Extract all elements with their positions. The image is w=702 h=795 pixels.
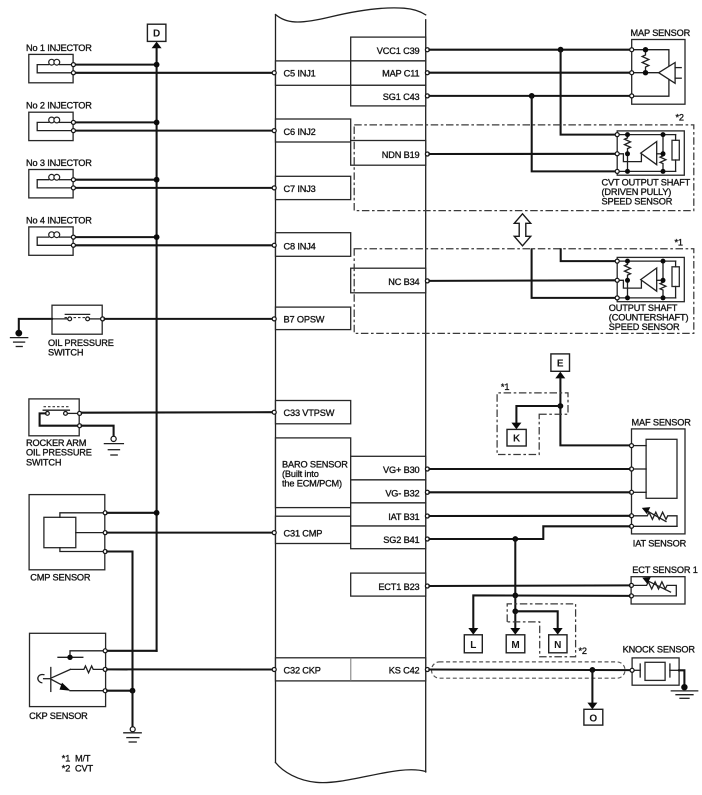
svg-text:KNOCK SENSOR: KNOCK SENSOR — [623, 644, 696, 654]
svg-text:ECT1 B23: ECT1 B23 — [378, 582, 419, 592]
terminal VCC1 C39 — [425, 48, 429, 52]
connector E box — [551, 354, 570, 371]
terminal KS C42 — [425, 668, 429, 672]
ECM/PCM strip top torn-edge wave — [276, 8, 426, 22]
arrow into L — [468, 628, 478, 635]
wire: injector4 to C8 INJ4 — [75, 244, 274, 246]
junction: bus / injector1 — [154, 62, 160, 68]
wire: SG2 vertical continues to M/N node — [514, 595, 516, 611]
wire: oil pressure switch to ground — [19, 319, 52, 332]
terminal NDN B19 — [425, 152, 429, 156]
svg-text:BARO SENSOR: BARO SENSOR — [282, 459, 348, 469]
terminal circles injector1 — [71, 63, 75, 75]
wire: CKP middle terminal to C32 CKP — [107, 668, 273, 670]
svg-text:*2 CVT: *2 CVT — [62, 764, 94, 774]
wire: down to ground G101 — [131, 691, 133, 727]
terminal C32 CKP — [272, 668, 276, 672]
junction: bus / injector2 — [154, 120, 160, 126]
terminals: CMP sensor — [103, 511, 107, 554]
connector row box SG1 C43 — [351, 85, 426, 106]
connector row box C32 CKP / KS C42 — [276, 658, 426, 681]
svg-text:(Built into: (Built into — [282, 469, 319, 479]
wire: SG1 C43 to MAP sensor — [429, 95, 629, 97]
arrow into N — [553, 628, 563, 635]
terminals: MAF/IAT sensor — [630, 444, 634, 529]
No 4 injector — [26, 215, 92, 255]
svg-text:NC B34: NC B34 — [388, 277, 419, 287]
dashed harness outline around knock sensor wire — [432, 662, 626, 678]
svg-text:L: L — [470, 640, 476, 651]
connector M box — [506, 635, 525, 653]
connector O box — [584, 709, 603, 725]
svg-text:C7 INJ3: C7 INJ3 — [284, 184, 316, 194]
No 1 injector — [26, 43, 92, 83]
svg-text:C8 INJ4: C8 INJ4 — [284, 241, 316, 251]
connector K box — [507, 429, 526, 446]
dashed option box *2 (CVT) — [354, 125, 694, 211]
svg-text:K: K — [513, 434, 521, 445]
wire: CMP middle terminal to C31 CMP — [107, 532, 273, 534]
terminal C33 VTPSW — [272, 410, 276, 414]
wire: injector1 top to bus — [75, 64, 157, 66]
connector row box IAT B31 — [351, 503, 426, 526]
terminal C5 INJ1 — [272, 71, 276, 75]
oil pressure switch — [48, 305, 114, 357]
connector row box C31 CMP — [276, 516, 351, 543]
ground G (rocker arm switch) — [104, 436, 123, 455]
svg-text:SG1 C43: SG1 C43 — [383, 92, 420, 102]
label *1 — [675, 237, 683, 247]
either/or double arrow between option boxes — [514, 214, 530, 246]
ground G101 (CKP/CMP) — [124, 727, 141, 742]
terminals: CKP sensor — [103, 649, 107, 693]
svg-text:C32 CKP: C32 CKP — [284, 666, 321, 676]
wire: branch to M — [514, 611, 516, 629]
rocker arm oil pressure switch — [26, 399, 92, 468]
wire: ECT sensor return rail to L drop — [473, 595, 629, 629]
ECM/PCM connector strip right edge — [425, 20, 427, 772]
arrow into K — [511, 423, 521, 430]
junction: E wire / K branch — [558, 403, 564, 409]
connector row box C7 INJ3 — [276, 176, 351, 199]
arrow into O — [587, 703, 597, 710]
svg-text:MAP C11: MAP C11 — [382, 69, 419, 79]
svg-text:C31 CMP: C31 CMP — [284, 529, 323, 539]
label *2 (N option) — [579, 646, 587, 656]
svg-text:CMP SENSOR: CMP SENSOR — [30, 573, 91, 583]
arrow into D — [152, 42, 162, 49]
terminal: knock sensor — [630, 668, 634, 672]
wire: E down to MAF sensor VIN — [560, 378, 629, 446]
svg-text:(DRIVEN PULLY): (DRIVEN PULLY) — [602, 187, 672, 197]
dashed option box *1 (M/T) — [354, 249, 694, 334]
connector row box C33 VTPSW — [276, 401, 351, 424]
terminal ECT1 B23 — [425, 584, 429, 588]
connector row box MAP C11 — [351, 61, 426, 85]
terminal: oil pressure switch output — [101, 317, 105, 321]
svg-text:(COUNTERSHAFT): (COUNTERSHAFT) — [609, 312, 689, 322]
connector row box VG- B32 — [351, 480, 426, 503]
wire: KS C42 to knock sensor — [429, 668, 630, 671]
label: output shaft speed sensor — [609, 303, 689, 332]
terminal B7 OPSW — [272, 317, 276, 321]
connector N box — [549, 635, 567, 653]
wire: main supply bus from D — [156, 48, 158, 651]
connector row box SG2 B41 — [351, 526, 426, 549]
wire: IAT B31 to IAT sensor — [429, 515, 629, 517]
wire: SG2 branch down to ECT return — [514, 539, 516, 595]
arrow into M — [510, 628, 520, 635]
wire: VCC1 branch down to CVT output shaft speed sensor — [561, 50, 616, 135]
wire: VCC branch into *1 box to output shaft speed sensor — [561, 249, 616, 261]
svg-text:C33 VTPSW: C33 VTPSW — [284, 408, 335, 418]
wire: injector2 to C6 INJ2 — [75, 130, 274, 132]
wire: NC B34 to output shaft speed sensor — [429, 279, 615, 282]
wire: injector1 to C5 INJ1 — [75, 72, 274, 74]
svg-text:No 3 INJECTOR: No 3 INJECTOR — [26, 158, 92, 168]
connector row box ECT1 B23 — [351, 573, 426, 596]
dashed option outline *1 around K — [497, 393, 568, 455]
terminals: rocker arm switch — [78, 411, 82, 427]
wire: bus to CKP top terminal — [107, 650, 157, 652]
knock sensor — [623, 644, 696, 685]
wire: rocker arm switch to ground — [82, 426, 114, 436]
junction: SG2 branch down — [512, 536, 518, 542]
svg-text:VG- B32: VG- B32 — [385, 488, 419, 498]
wire: CMP top terminal to bus — [107, 512, 156, 514]
terminal VG- B32 — [425, 490, 429, 494]
terminal MAP C11 — [425, 71, 429, 75]
connector L box — [464, 635, 482, 653]
svg-text:NDN B19: NDN B19 — [382, 150, 420, 160]
CKP sensor — [29, 633, 106, 721]
MAP sensor — [631, 28, 691, 104]
wire: rocker arm switch to C33 VTPSW — [82, 411, 274, 414]
junction: bus / injector3 — [154, 177, 160, 183]
svg-text:MAF SENSOR: MAF SENSOR — [632, 417, 692, 427]
wire: injector3 top to bus — [75, 179, 157, 181]
svg-text:*2: *2 — [579, 646, 587, 656]
svg-text:MAP SENSOR: MAP SENSOR — [631, 28, 691, 38]
svg-text:CKP SENSOR: CKP SENSOR — [29, 711, 88, 721]
svg-text:C5 INJ1: C5 INJ1 — [284, 69, 316, 79]
svg-text:SWITCH: SWITCH — [48, 348, 83, 358]
terminal C8 INJ4 — [272, 243, 276, 247]
CMP sensor — [29, 495, 105, 583]
wire: branch to N — [515, 611, 557, 629]
terminal C7 INJ3 — [272, 186, 276, 190]
svg-text:CVT OUTPUT SHAFT: CVT OUTPUT SHAFT — [602, 177, 691, 187]
svg-text:ECT SENSOR 1: ECT SENSOR 1 — [632, 565, 697, 575]
ECM/PCM strip bottom torn-edge wave — [276, 763, 426, 783]
legend *1 M/T — [62, 754, 91, 764]
No 2 injector — [26, 101, 92, 141]
svg-text:C6 INJ2: C6 INJ2 — [284, 127, 316, 137]
connector row box B7 OPSW — [276, 307, 351, 330]
wire: injector4 top to bus — [75, 236, 157, 238]
junction: bus / CMP — [154, 510, 160, 516]
svg-text:*2: *2 — [676, 113, 684, 123]
output shaft (countershaft) speed sensor — [615, 257, 684, 301]
connector row box VCC1 C39 — [351, 37, 426, 61]
connector row box C8 INJ4 — [276, 233, 351, 257]
svg-text:*1 M/T: *1 M/T — [62, 754, 91, 764]
terminal NC B34 — [425, 279, 429, 283]
terminal VG+ B30 — [425, 467, 429, 471]
terminals: MAP sensor — [630, 48, 634, 98]
svg-text:KS C42: KS C42 — [389, 666, 420, 676]
svg-text:SG2 B41: SG2 B41 — [383, 535, 419, 545]
connector row box NC B34 — [351, 268, 426, 293]
svg-text:E: E — [557, 358, 564, 369]
connector row box C6 INJ2 — [276, 119, 351, 142]
terminal SG2 B41 — [425, 537, 429, 541]
BARO sensor block (built into ECM/PCM) — [276, 438, 351, 508]
terminal C6 INJ2 — [272, 129, 276, 133]
svg-text:SPEED SENSOR: SPEED SENSOR — [609, 322, 680, 332]
wire: CKP bottom terminal to ground drop — [107, 690, 132, 692]
label: CVT output shaft speed sensor — [602, 177, 691, 206]
wire: CMP bottom terminal to ground drop — [107, 552, 132, 691]
CVT output shaft (driven pulley) speed sensor — [615, 131, 684, 175]
arrow into E — [555, 372, 565, 379]
wire: injector2 top to bus — [75, 121, 157, 123]
ECT sensor 1 — [631, 565, 698, 604]
svg-text:SPEED SENSOR: SPEED SENSOR — [602, 196, 673, 206]
connector D box — [147, 24, 166, 41]
junction: SG1 branch to speed sensors — [529, 93, 535, 99]
connector row box C5 INJ1 — [276, 61, 351, 85]
svg-text:M: M — [511, 640, 519, 651]
svg-text:ROCKER ARM: ROCKER ARM — [26, 438, 86, 448]
wire: VCC1 C39 to MAP sensor — [429, 49, 629, 51]
legend *2 CVT — [62, 764, 94, 774]
svg-text:OUTPUT SHAFT: OUTPUT SHAFT — [609, 303, 678, 313]
terminal SG1 C43 — [425, 94, 429, 98]
wire: SG2 B41 to IAT sensor (steps up) — [429, 526, 629, 539]
wire: MAP C11 to MAP sensor — [429, 72, 629, 74]
label *2 — [676, 113, 684, 123]
terminal IAT B31 — [425, 514, 429, 518]
svg-text:N: N — [554, 640, 561, 651]
junction: knock wire / O branch — [590, 667, 596, 673]
terminals: ECT sensor 1 — [629, 583, 633, 598]
ground (knock sensor) — [671, 684, 697, 698]
wire: NDN B19 to CVT output shaft speed sensor — [429, 153, 615, 155]
svg-text:OIL PRESSURE: OIL PRESSURE — [26, 448, 92, 458]
svg-text:No 1 INJECTOR: No 1 INJECTOR — [26, 43, 92, 53]
junction: M/N split — [512, 608, 518, 614]
junction: SG2 vertical / ECT return — [512, 593, 518, 599]
junction: CMP/CKP ground wire — [130, 688, 136, 694]
connector row box NDN B19 — [351, 141, 426, 166]
wire: oil pressure switch to B7 OPSW — [105, 318, 274, 320]
ECM/PCM connector strip left edge — [275, 15, 277, 763]
wire: K branch — [516, 406, 560, 424]
svg-text:O: O — [589, 713, 597, 724]
svg-text:IAT SENSOR: IAT SENSOR — [633, 539, 687, 549]
wire: SG1 branch down to CVT output shaft speed sensor — [532, 96, 616, 171]
svg-text:No 2 INJECTOR: No 2 INJECTOR — [26, 101, 92, 111]
svg-text:VG+ B30: VG+ B30 — [383, 465, 420, 475]
junction: VCC1 branch to speed sensors — [558, 47, 564, 53]
MAF sensor / IAT sensor combined unit — [632, 417, 692, 548]
svg-text:VCC1 C39: VCC1 C39 — [377, 46, 420, 56]
connector row box VG+ B30 — [351, 456, 426, 480]
terminal circles injector4 — [71, 235, 75, 247]
junction: bus / injector4 — [154, 234, 160, 240]
label *1 (K option) — [501, 382, 509, 392]
svg-text:*1: *1 — [675, 237, 683, 247]
svg-text:No 4 INJECTOR: No 4 INJECTOR — [26, 215, 92, 225]
wire: branch down to O — [591, 670, 593, 704]
wire: VG+ B30 to MAF sensor — [429, 468, 629, 470]
svg-text:B7 OPSW: B7 OPSW — [284, 315, 325, 325]
ground G (oil pressure switch) — [11, 330, 28, 347]
terminal circles injector2 — [71, 120, 75, 132]
wire: ECT1 B23 to ECT sensor 1 — [429, 584, 629, 587]
No 3 injector — [26, 158, 92, 198]
wire: injector3 to C7 INJ3 — [75, 187, 274, 189]
svg-text:SWITCH: SWITCH — [26, 457, 61, 467]
terminal C31 CMP — [272, 531, 276, 535]
svg-text:OIL PRESSURE: OIL PRESSURE — [48, 338, 114, 348]
svg-text:the ECM/PCM): the ECM/PCM) — [282, 479, 342, 489]
wire: VG- B32 to MAF sensor — [429, 491, 629, 493]
terminal circles injector3 — [71, 178, 75, 190]
wire: knock sensor to ground — [679, 670, 684, 685]
dashed option outline *2 around N — [507, 604, 575, 657]
svg-text:IAT B31: IAT B31 — [388, 512, 419, 522]
svg-text:D: D — [153, 29, 160, 40]
svg-text:*1: *1 — [501, 382, 509, 392]
wire: SG branch into *1 box to output shaft speed sensor — [532, 249, 616, 298]
